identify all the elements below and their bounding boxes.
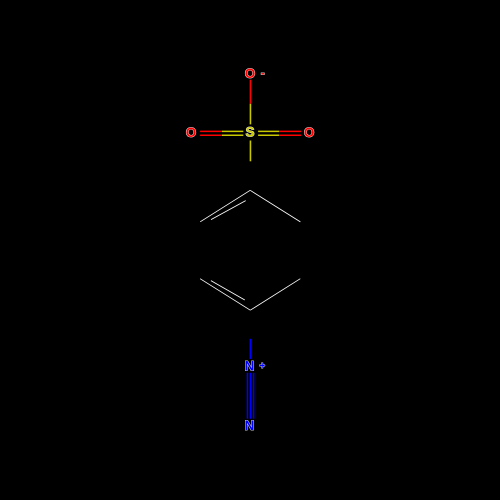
wire S-C(ring) single bond, yellow half only xyxy=(249,141,251,162)
benzene ring lower-left edge C3-C4 xyxy=(200,279,250,311)
svg-text:S: S xyxy=(245,124,254,139)
wire S=O(right) double bond upper line, yellow half xyxy=(258,130,279,132)
benzene ring lower-left inner double-bond line xyxy=(211,281,245,300)
wire S=O(left) double bond lower line, red half xyxy=(200,134,222,136)
wire S=O(left) double bond lower line, yellow half xyxy=(222,134,243,136)
svg-text:N: N xyxy=(244,358,254,373)
wire O(top)-S single bond, red half xyxy=(249,80,251,104)
svg-text:O: O xyxy=(304,125,315,140)
wire S=O(right) double bond lower line, red half xyxy=(279,134,301,136)
benzene ring upper-left inner double-bond line xyxy=(211,201,246,220)
wire N+ triple bond N, right line xyxy=(253,373,255,419)
svg-text:+: + xyxy=(259,361,265,372)
svg-text:O: O xyxy=(186,125,197,140)
wire N+ triple bond N, left line xyxy=(246,373,248,419)
wire S=O(left) double bond upper line, red half xyxy=(200,130,222,132)
wire S=O(left) double bond upper line, yellow half xyxy=(222,130,243,132)
svg-text:N: N xyxy=(245,418,255,433)
svg-text:-: - xyxy=(261,66,265,80)
benzene ring upper-left edge C1-C2 xyxy=(200,190,250,222)
wire C(ring)-N+ single bond, blue half only xyxy=(249,339,251,359)
wire O(top)-S single bond, yellow half xyxy=(249,104,251,125)
wire S=O(right) double bond lower line, yellow half xyxy=(258,134,279,136)
benzene ring upper-right edge C1-C6 xyxy=(250,190,300,222)
benzene ring lower-right edge C4-C5 xyxy=(250,279,300,311)
wire S=O(right) double bond upper line, red half xyxy=(279,130,301,132)
wire N+ triple bond N, center line xyxy=(250,373,252,419)
svg-text:O: O xyxy=(245,66,256,81)
